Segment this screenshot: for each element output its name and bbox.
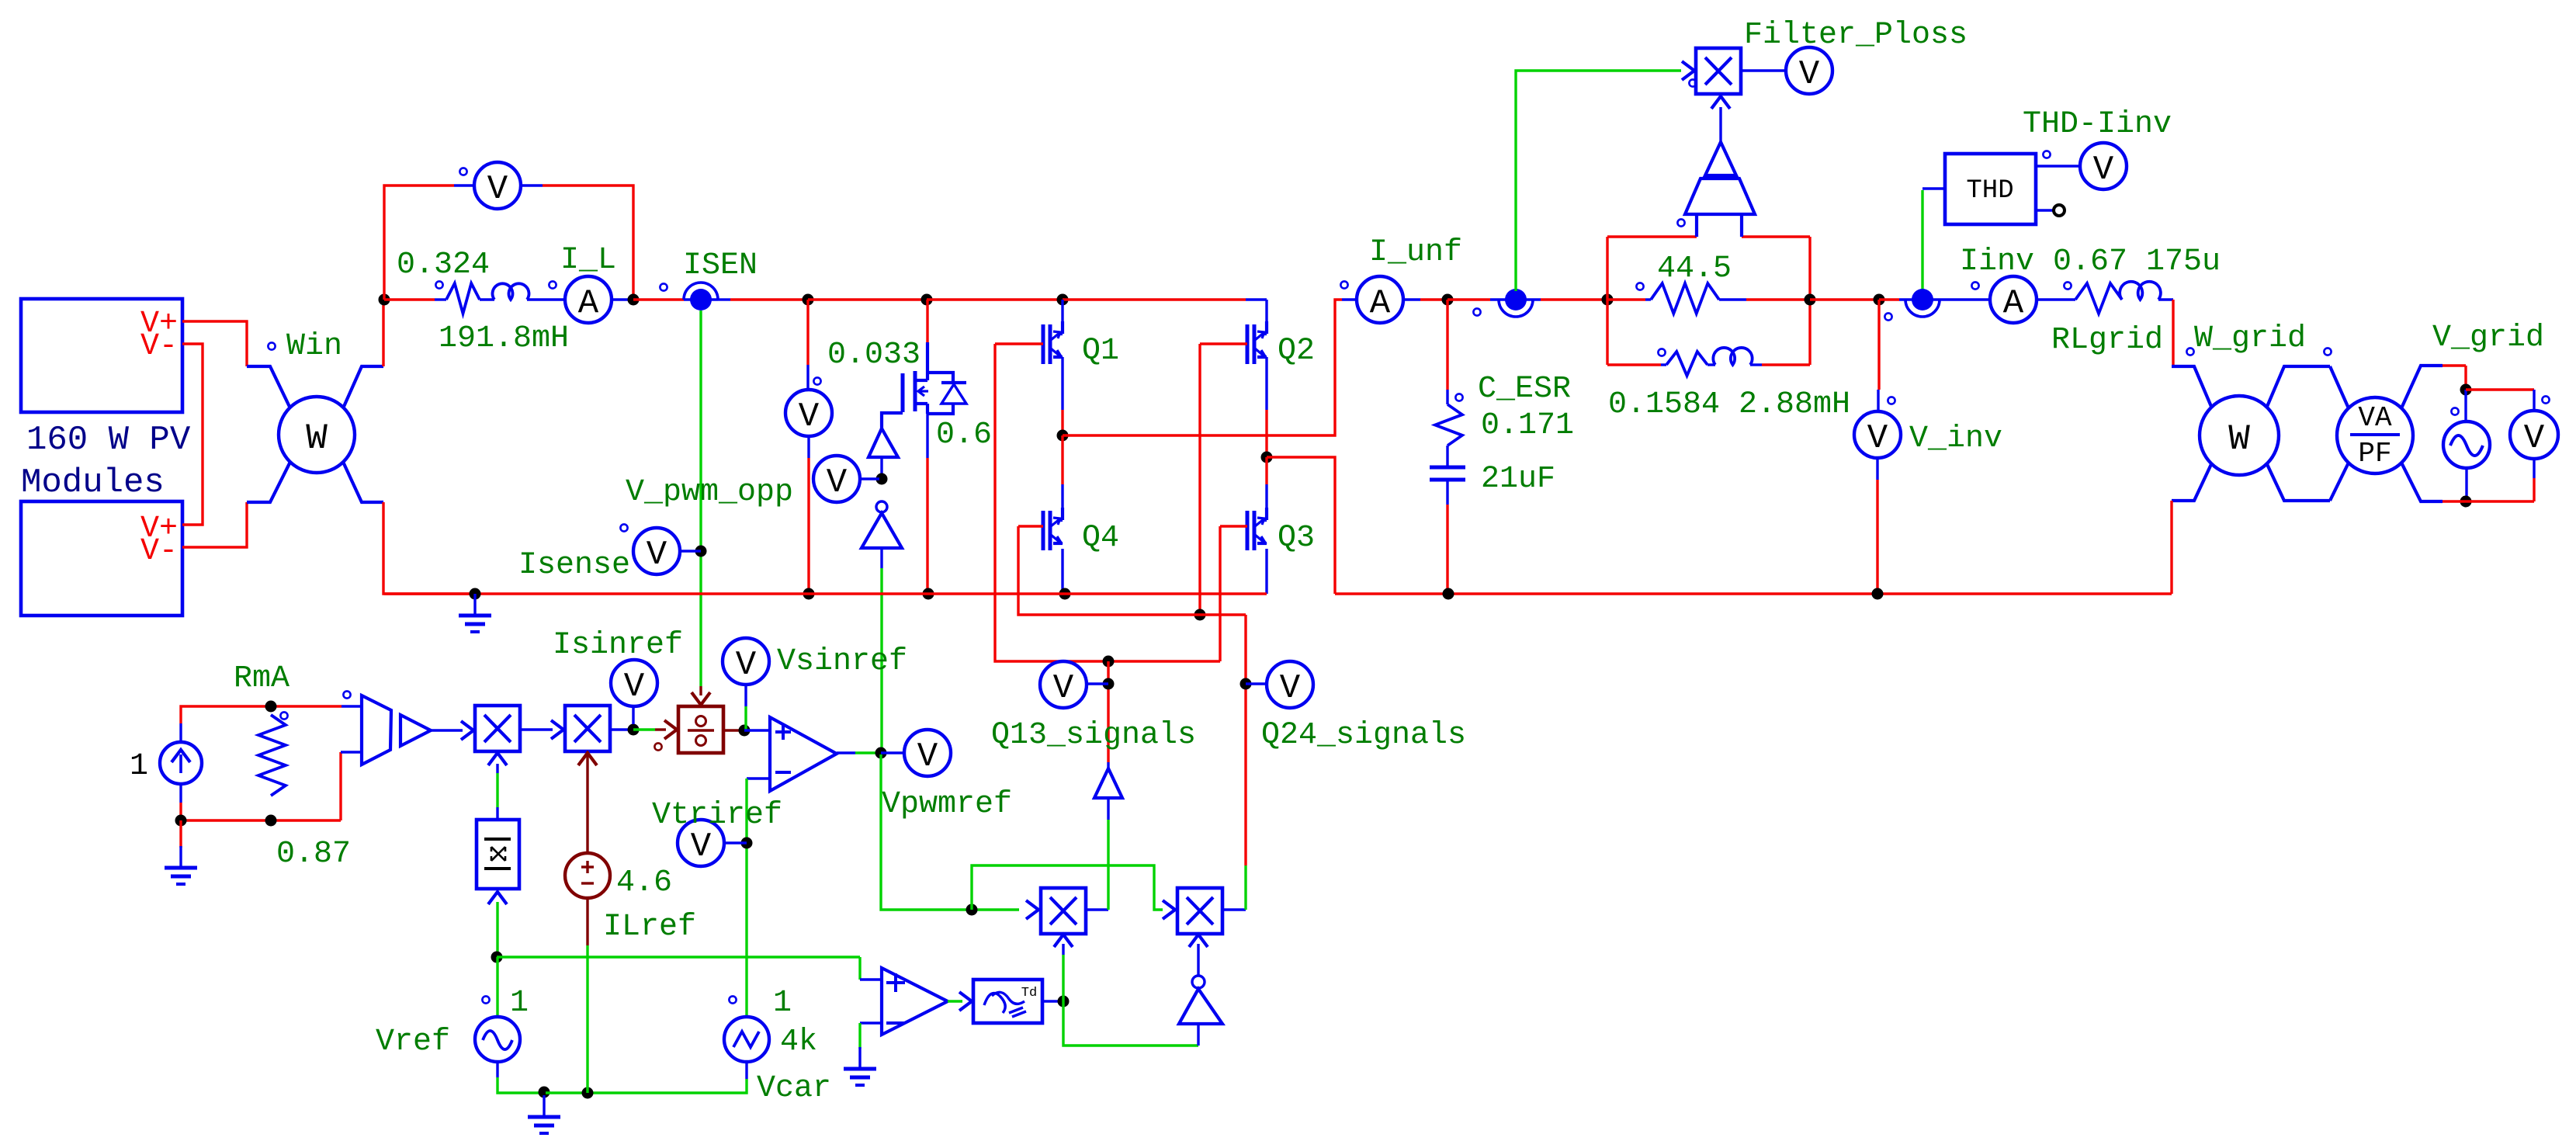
- svg-text:V: V: [736, 646, 757, 685]
- svg-text:0.033: 0.033: [827, 338, 920, 373]
- svg-text:Vpwmref: Vpwmref: [882, 787, 1012, 822]
- node Vgrid bottom: [2460, 496, 2472, 508]
- degree marker V_inv: [1888, 397, 1895, 404]
- wire R to C: [1446, 446, 1448, 466]
- node Vdc to ground rail: [803, 588, 815, 600]
- svg-text:Q1: Q1: [1082, 334, 1119, 369]
- svg-text:191.8mH: 191.8mH: [439, 321, 569, 356]
- wire node to sensor2: [1447, 298, 1490, 300]
- multiplier M1: [475, 706, 520, 751]
- svg-text:V-: V-: [140, 534, 178, 569]
- svg-text:V: V: [1799, 55, 1820, 94]
- svg-text:W: W: [2228, 419, 2250, 460]
- svg-text:Vref: Vref: [376, 1025, 450, 1060]
- wire to resistor 44.5: [1607, 298, 1645, 300]
- svg-text:0.171: 0.171: [1481, 408, 1574, 443]
- wire ISEN to divider: [699, 686, 702, 695]
- node Q1 drain: [1057, 294, 1069, 306]
- wire rail seg2: [808, 298, 927, 300]
- wire abs input: [488, 892, 507, 904]
- degree marker Vgrid source: [2451, 408, 2458, 414]
- arrow mult input: [1682, 61, 1694, 80]
- node buck source: [923, 588, 934, 600]
- Win leg bottom-right: [343, 462, 383, 502]
- buffer gate driver: [868, 428, 898, 457]
- source Vcar triangle: [724, 1017, 769, 1062]
- wire Vdc branch upper: [806, 300, 809, 365]
- W_grid degree marker: [2186, 348, 2193, 355]
- wire ISEN to node: [718, 298, 730, 300]
- voltmeter Vtriref: [678, 820, 724, 866]
- source ILref: [565, 853, 610, 898]
- degree marker trapezoid: [1677, 219, 1684, 226]
- degree marker V-loop: [459, 168, 466, 175]
- wire network top right: [1742, 235, 1810, 238]
- voltmeter top stub right: [521, 184, 543, 186]
- node Q24 meter tap: [1240, 678, 1252, 690]
- wire buck drain: [926, 300, 928, 342]
- ground symbol ref: [543, 1095, 545, 1115]
- wire node to ISEN: [633, 298, 684, 300]
- svg-text:I_L: I_L: [560, 243, 616, 278]
- buffer Q13: [1094, 768, 1122, 798]
- lead to ammeter I_L: [527, 298, 565, 300]
- svg-text:Q24_signals: Q24_signals: [1261, 718, 1466, 753]
- wire M4 output: [1086, 908, 1108, 910]
- Win leg top-left: [247, 366, 290, 408]
- wire node to V_inv tap: [1810, 298, 1879, 300]
- voltmeter top stub left: [454, 184, 474, 186]
- buffer RmA: [400, 715, 431, 746]
- VA-PF leg top-right: [2401, 366, 2443, 408]
- wire source bottom: [179, 784, 182, 803]
- svg-text:V: V: [1053, 669, 1074, 708]
- degree marker sensor2: [1473, 308, 1480, 315]
- wire Q2 gate stub: [1200, 342, 1247, 345]
- svg-text:0.87: 0.87: [276, 837, 351, 872]
- THD open terminal: [2036, 209, 2054, 211]
- svg-text:V: V: [1280, 669, 1301, 708]
- svg-text:V: V: [1867, 419, 1888, 458]
- wire summer minus: [747, 777, 770, 779]
- inverter NOT gate pwm: [876, 501, 887, 512]
- degree marker R: [435, 281, 442, 288]
- inductor 2.88mH: [1713, 348, 1752, 365]
- lead I_unf to node: [1403, 298, 1420, 300]
- wire ILref bottom: [586, 898, 588, 945]
- ground symbol source: [179, 820, 182, 848]
- voltmeter (input V): [474, 162, 521, 209]
- svg-text:Vtriref: Vtriref: [652, 798, 782, 833]
- wire Vgrid meter top: [2466, 388, 2534, 390]
- svg-text:Isense: Isense: [518, 548, 630, 583]
- resistor 0.324: [446, 283, 480, 314]
- wire Vpwmref bypass: [972, 865, 1163, 910]
- wire buck source: [926, 410, 928, 458]
- W_grid leg top-left: [2172, 366, 2212, 408]
- wattmeter W_grid circle: [2200, 396, 2279, 475]
- node Isinref tap: [628, 724, 640, 736]
- resistor RmA: [258, 715, 286, 796]
- degree marker C_ESR: [1455, 394, 1462, 401]
- voltmeter Q24_signals: [1267, 661, 1313, 708]
- voltmeter DC link: [785, 390, 832, 436]
- svg-text:V_grid: V_grid: [2432, 321, 2544, 355]
- svg-text:Q3: Q3: [1278, 521, 1315, 556]
- Win leg top-right: [343, 366, 383, 408]
- wire M1 to M2: [520, 728, 553, 730]
- voltmeter Filter_Ploss: [1786, 47, 1832, 94]
- diode buck antiparallel: [927, 373, 953, 383]
- PV module box 2: [21, 501, 182, 616]
- svg-text:V: V: [917, 737, 938, 776]
- wire divider output: [723, 729, 740, 731]
- inductor RLgrid: [2120, 282, 2161, 300]
- wire Td to M4: [1062, 955, 1064, 1001]
- inverter NOT gate pwm2: [1179, 989, 1222, 1024]
- wire network left vertical: [1606, 237, 1608, 365]
- wire trapezoid legs: [1695, 214, 1698, 237]
- degree marker THD: [2043, 151, 2050, 158]
- svg-text:Modules: Modules: [21, 463, 165, 502]
- node Q4 source: [1059, 588, 1071, 600]
- current sensor Iinv: [1899, 298, 1948, 300]
- wire Q4 drain: [1061, 435, 1063, 484]
- wire ISEN signal: [699, 310, 702, 686]
- svg-text:Q13_signals: Q13_signals: [991, 718, 1196, 753]
- degree marker Iinv: [1971, 282, 1978, 289]
- degree marker Vdc: [813, 377, 820, 384]
- wire buffer Q13 up: [1107, 762, 1109, 768]
- node Vgrid top: [2460, 384, 2472, 396]
- wire 44.5 to node: [1719, 298, 1746, 300]
- svg-text:V_pwm_opp: V_pwm_opp: [626, 475, 793, 510]
- node RmA bottom: [265, 815, 277, 827]
- wire Vcar bottom: [745, 1062, 747, 1079]
- svg-text:A: A: [1370, 284, 1391, 323]
- wire Vdc branch lower: [807, 436, 810, 458]
- svg-text:A: A: [578, 284, 599, 323]
- voltmeter Isinref: [611, 660, 657, 706]
- wire VA to Vgrid bottom: [2443, 500, 2466, 502]
- wire to Vpwmref meter: [881, 751, 904, 754]
- wire buck gate lead: [882, 413, 903, 428]
- resistor 0.1584: [1661, 363, 1666, 366]
- wire summer output: [837, 751, 855, 754]
- node Q24 gate join: [1194, 609, 1206, 621]
- wire sensor2 to network: [1541, 298, 1607, 300]
- wire to trapezoid lower: [339, 752, 342, 820]
- resistor C_ESR: [1435, 404, 1462, 446]
- wire divider to summer: [744, 729, 770, 731]
- svg-text:W: W: [306, 418, 328, 459]
- svg-text:V: V: [647, 536, 667, 574]
- multiplier M5: [1177, 888, 1222, 934]
- node Vpwmref: [875, 747, 887, 759]
- node M4 input: [966, 904, 978, 916]
- wire NOT input: [880, 548, 882, 568]
- wire to trapezoid upper: [342, 705, 362, 707]
- wire Q2 drain: [1265, 300, 1267, 323]
- wire Q24 signal drop: [1244, 615, 1246, 865]
- degree marker 44.5: [1636, 283, 1643, 290]
- wire Q1 gate stub: [995, 342, 1043, 345]
- svg-text:V_inv: V_inv: [1909, 421, 2002, 456]
- AC return rail: [1335, 592, 2172, 595]
- resistor RLgrid: [2075, 283, 2122, 314]
- svg-text:V: V: [799, 397, 820, 436]
- current sensor filter: [1490, 298, 1541, 300]
- THD block: [1945, 154, 2036, 224]
- svg-text:Isinref: Isinref: [553, 628, 683, 663]
- wire C to rail: [1446, 480, 1448, 505]
- svg-text:THD: THD: [1966, 176, 2013, 206]
- degree marker I_unf: [1340, 281, 1347, 288]
- svg-text:ISEN: ISEN: [683, 248, 758, 283]
- wire THD output: [2036, 165, 2080, 167]
- svg-text:Q4: Q4: [1082, 521, 1119, 556]
- abs block: [477, 820, 519, 889]
- wire Q13 signal drop: [1107, 661, 1109, 762]
- wire Win top-right to rail: [382, 301, 384, 366]
- svg-text:W_grid: W_grid: [2194, 321, 2306, 356]
- current source 1A: [160, 742, 202, 784]
- wire ref rail: [546, 1091, 588, 1094]
- node RmA top: [265, 701, 277, 713]
- svg-text:V: V: [624, 668, 645, 706]
- source V_grid sine: [2443, 421, 2490, 468]
- ground symbol main: [470, 588, 481, 600]
- node Q13 tap: [1103, 656, 1115, 668]
- capacitor 21uF: [1430, 466, 1465, 470]
- wire minus input drop: [745, 779, 747, 1017]
- wire Q24 signal rise: [1244, 865, 1246, 910]
- wire C_ESR branch: [1446, 300, 1448, 390]
- wire V_inv upper: [1877, 300, 1880, 390]
- svg-text:RLgrid: RLgrid: [2051, 323, 2163, 358]
- wire Vgrid source top: [2464, 390, 2467, 421]
- voltmeter Isense: [633, 528, 680, 574]
- wire source top: [179, 723, 182, 742]
- wire abs top: [496, 807, 498, 820]
- node after I_L: [628, 294, 640, 306]
- wire VA to Vgrid top: [2443, 364, 2466, 366]
- svg-text:4.6: 4.6: [616, 865, 672, 900]
- wire Q1 drain: [1061, 300, 1063, 323]
- svg-text:1: 1: [130, 749, 148, 784]
- transistor Q3: [1246, 511, 1250, 550]
- degree marker Vcar: [729, 996, 736, 1003]
- voltmeter THD-Iinv: [2080, 143, 2127, 189]
- node Q13 meter tap: [1103, 678, 1115, 690]
- wire V_inv lower: [1876, 458, 1878, 480]
- W_grid leg bottom-right: [2266, 463, 2330, 501]
- wire buffer to mult1: [431, 729, 463, 731]
- svg-text:V: V: [2093, 151, 2114, 189]
- wire rail to Q2: [1063, 298, 1246, 300]
- W_grid leg bottom-left: [2172, 463, 2212, 501]
- voltmeter V_inv: [1854, 411, 1901, 458]
- node Isense tap: [695, 546, 707, 557]
- svg-text:1: 1: [773, 986, 792, 1021]
- lead ammeter to node: [612, 298, 633, 300]
- node V_pwm_opp tap: [876, 473, 888, 485]
- ground rail DC-: [384, 592, 1267, 595]
- wire Q4 gate stub: [1018, 525, 1043, 527]
- ammeter I_L: [565, 276, 612, 323]
- node Vdc meter tap: [803, 294, 814, 306]
- voltage sensor trap RmA: [362, 695, 391, 765]
- svg-text:V: V: [827, 463, 848, 502]
- wire comparator minus: [860, 1021, 882, 1024]
- VA-PF leg bottom-left: [2330, 463, 2349, 501]
- degree marker RmA: [280, 712, 287, 719]
- svg-text:0.6: 0.6: [936, 418, 992, 453]
- lead Iinv to RLgrid: [2037, 298, 2075, 300]
- wire M5 output: [1222, 908, 1246, 910]
- svg-text:V: V: [487, 170, 508, 209]
- wire Vref top: [496, 957, 498, 1018]
- wire carrier reference: [497, 956, 860, 958]
- node V_inv to rail: [1872, 588, 1884, 600]
- svg-text:C_ESR: C_ESR: [1478, 372, 1571, 407]
- voltmeter Vsinref: [723, 638, 769, 685]
- voltmeter V_pwm_opp: [813, 456, 860, 502]
- degree marker divider: [654, 743, 661, 750]
- degree marker I_L: [549, 281, 556, 288]
- lead to resistor: [435, 298, 446, 300]
- svg-text:1: 1: [510, 986, 529, 1021]
- inductor 191.8mH: [492, 283, 529, 300]
- source Vref sine: [475, 1017, 520, 1062]
- wire Td to NOT: [1063, 1001, 1198, 1046]
- wire Filter current input: [1516, 71, 1681, 291]
- time delay block Td: [973, 980, 1042, 1023]
- op-amp comparator: [882, 968, 948, 1035]
- W_grid leg top-right: [2266, 366, 2330, 408]
- current sensor ISEN: [684, 298, 718, 300]
- wire network top left: [1607, 235, 1697, 238]
- wire network bottom left: [1607, 363, 1661, 366]
- svg-text:V-: V-: [140, 329, 178, 364]
- ammeter Iinv: [1990, 276, 2037, 323]
- transistor Q4: [1042, 511, 1045, 550]
- transistor Q1: [1042, 324, 1045, 364]
- wire buffer to node: [880, 457, 882, 477]
- wire Q4 gate route: [1018, 526, 1246, 615]
- transistor Q2: [1246, 324, 1250, 364]
- wire network right vertical: [1808, 237, 1811, 365]
- wire damping mid: [1708, 363, 1715, 366]
- degree marker Vgrid meter: [2542, 396, 2549, 403]
- Win degree marker: [268, 342, 275, 349]
- svg-text:Vcar: Vcar: [757, 1071, 831, 1106]
- wire ILref top: [586, 751, 588, 762]
- svg-text:Q2: Q2: [1278, 334, 1315, 369]
- node Vsinref tap: [739, 725, 751, 737]
- degree marker trap RmA: [343, 691, 350, 698]
- ammeter I_unf: [1357, 276, 1403, 323]
- degree marker RLgrid: [2064, 282, 2071, 289]
- VA-PF leg top-left: [2330, 366, 2349, 408]
- wire Q2 source: [1265, 357, 1267, 410]
- wire rail to R: [384, 298, 435, 300]
- node ground ref: [539, 1087, 550, 1098]
- VA-PF degree marker: [2324, 348, 2331, 355]
- degree marker mult: [1689, 79, 1696, 86]
- wire carrier corner: [858, 957, 861, 980]
- wire Vref bottom: [496, 1062, 498, 1077]
- wire R-L: [480, 298, 494, 300]
- wire Vgrid meter bottom: [2533, 459, 2535, 478]
- wire M2 output: [611, 728, 633, 730]
- svg-text:RmA: RmA: [234, 661, 289, 696]
- svg-text:V: V: [2524, 419, 2545, 458]
- multiplier M2: [565, 706, 610, 751]
- node Vref junction: [491, 952, 503, 963]
- node ground tap: [175, 815, 187, 827]
- wire PV1 V+ to Win: [182, 321, 247, 366]
- node C to rail: [1443, 588, 1454, 600]
- wire PV2 V- to Win: [182, 502, 247, 547]
- wire Q3 drain: [1265, 457, 1267, 484]
- node ILref bottom: [582, 1087, 594, 1099]
- wire V-loop right: [543, 186, 633, 300]
- wire Win bottom-right down: [383, 502, 475, 594]
- wire W_grid bottom to rail: [2170, 501, 2172, 594]
- svg-text:0.1584 2.88mH: 0.1584 2.88mH: [1608, 387, 1850, 422]
- op-amp summer: [770, 717, 837, 791]
- wire Q3 source: [1265, 549, 1267, 594]
- buffer filter sense: [1705, 142, 1736, 175]
- node network left: [1602, 294, 1614, 306]
- wire Vgrid source bottom: [2465, 468, 2467, 501]
- node V_inv tap: [1874, 294, 1885, 306]
- multiplier Filter_Ploss: [1696, 48, 1741, 94]
- svg-text:Td: Td: [1021, 986, 1037, 1001]
- wire comparator out: [948, 1000, 962, 1002]
- wire mult output: [1742, 69, 1786, 71]
- wire NOT to M5: [1197, 944, 1199, 976]
- PV module box 1: [21, 299, 182, 412]
- svg-text:Iinv 0.67 175u: Iinv 0.67 175u: [1960, 245, 2221, 279]
- Win leg bottom-left: [247, 462, 290, 502]
- degree marker Isense: [620, 524, 627, 531]
- svg-text:4k: 4k: [780, 1025, 817, 1060]
- svg-text:160 W PV: 160 W PV: [26, 421, 191, 460]
- node rail-left: [379, 294, 390, 306]
- resistor 44.5: [1645, 298, 1651, 300]
- wire V-loop left: [384, 186, 454, 300]
- voltage sensor trapezoid: [1685, 179, 1755, 214]
- ground symbol comparator: [858, 1047, 861, 1067]
- wire Q3 gate stub: [1220, 525, 1247, 527]
- wire Vpwmref drop: [881, 754, 1019, 910]
- wire Q24 gate bus: [1198, 344, 1201, 615]
- svg-text:VA: VA: [2358, 402, 2392, 434]
- voltmeter Vpwmref: [904, 730, 951, 776]
- wire Q13 gate bus: [995, 344, 1220, 661]
- VA-PF meter circle: [2337, 397, 2413, 473]
- node B Q2-Q3: [1261, 452, 1273, 463]
- wire RLgrid to W_grid: [2158, 298, 2173, 300]
- node Vtriref tap: [741, 838, 753, 849]
- degree marker sensor3: [1884, 313, 1891, 320]
- svg-text:PF: PF: [2358, 438, 2391, 470]
- svg-text:A: A: [2003, 284, 2024, 323]
- svg-text:21uF: 21uF: [1481, 462, 1555, 497]
- wire PV1 V- to PV2 V+: [182, 344, 203, 525]
